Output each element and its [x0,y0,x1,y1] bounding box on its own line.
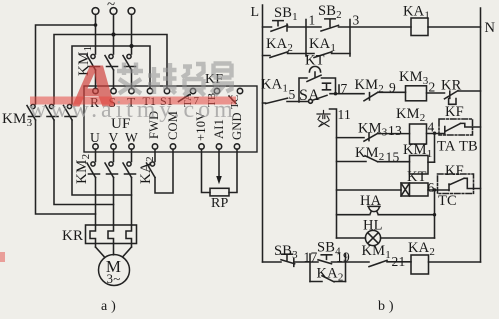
terminal FWD [147,111,161,150]
thermal relay KR box [62,225,137,244]
contact KM1 row8 [362,243,391,267]
svg-text:1: 1 [309,13,316,28]
node 9 [389,80,396,95]
svg-text:L: L [251,5,260,20]
relay KF label (TC) [445,163,464,179]
wire phase B vertical [113,15,115,55]
node 17 [304,250,318,282]
contactor coil KM2 [396,106,427,144]
svg-text:KR: KR [441,78,462,94]
overload contact KR [441,78,481,105]
svg-text:17: 17 [304,250,318,265]
contact KM3 NC row3 [337,121,410,142]
wire U down [95,149,97,161]
wire +10V to RP [202,149,211,192]
svg-text:V: V [109,130,119,145]
contact blade near TA [179,95,190,102]
svg-text:TA: TA [437,139,456,155]
wire row8 segments [263,261,481,263]
contact KM2 NC row2 [355,77,406,101]
inverter UF name [111,116,131,132]
watermark red A logo [72,66,115,107]
svg-text:KT: KT [407,169,427,185]
riser node6 down to HL row [434,190,436,238]
svg-text:21: 21 [392,254,406,269]
node 5 [289,87,296,102]
watermark url text [29,97,237,123]
svg-text:TC: TC [438,193,457,209]
buzzer HA [360,193,382,215]
motor M 3~ [99,255,130,287]
node row6 junction [433,213,436,216]
relay KF label (TA TB) [445,104,464,120]
relay coil KA1 [403,4,430,36]
wire KM2 coil to node4 [427,133,445,135]
wire GND to RP [229,149,237,192]
relay coil KA2 [408,240,435,274]
wire phase A tap to KM3 pole1 [36,25,96,104]
svg-text:19: 19 [336,250,350,265]
pin 7 label [194,95,200,107]
svg-text:U: U [90,130,100,145]
svg-text:RP: RP [211,196,229,211]
wire KR to motor left [96,247,105,257]
svg-text:SB2: SB2 [318,3,342,21]
caption b) [378,299,394,314]
contact KA2 parallel with SB1 [263,36,307,58]
svg-text:b ): b ) [378,299,394,314]
svg-text:3~: 3~ [107,271,121,286]
wire KM1 pole3 to T [131,70,133,88]
wire KM1 coil to riser [428,161,435,163]
svg-text:HA: HA [360,193,382,209]
contact blade near TC [229,96,236,104]
wire V down [113,149,115,161]
wire phase C tap to KM3 pole3 and to T1 [72,46,150,104]
svg-text:KM3: KM3 [399,69,429,87]
svg-text:4: 4 [428,120,435,135]
wire AI1 wiper arrow [216,149,222,184]
relay KF label on inverter [205,72,223,87]
terminal R [90,88,99,110]
terminal T [127,88,136,110]
contactor KM3 label [2,111,33,129]
svg-text:KM3: KM3 [2,111,33,129]
svg-text:SA: SA [299,87,320,104]
wire row6 [337,214,435,216]
node 13 [388,123,402,138]
terminal TC [229,88,243,109]
svg-text:KA2: KA2 [408,240,435,258]
svg-text:13: 13 [388,123,402,138]
svg-text:SB1: SB1 [274,5,298,23]
svg-text:2: 2 [429,80,436,95]
position mark gong (line-power) [323,83,331,90]
svg-text:KM2: KM2 [355,145,384,163]
svg-text:7: 7 [341,81,348,96]
selector switch SA [299,87,327,104]
svg-text:KM1: KM1 [403,142,432,160]
KF contact box TC [438,174,481,209]
svg-text:11: 11 [338,107,351,122]
wire KM3 pole1 down and right to motor wire U [36,120,96,214]
timed contact KT bridge [299,53,336,103]
supply terminal 1 [92,8,99,15]
lamp HL [363,218,383,246]
svg-text:N: N [485,20,496,36]
wire row7 [337,237,435,239]
node 19 [336,250,350,282]
terminal GND [230,112,244,149]
watermark red strip [30,97,236,105]
wire node5 to SA [287,101,308,103]
svg-text:HL: HL [363,218,383,234]
svg-text:KF: KF [445,163,464,179]
contactor KM1 label [76,46,94,76]
terminal T1 [143,88,157,108]
node 4 riser to KM1 coil [428,120,437,163]
contactor coil KM3 [399,69,429,101]
node 15 [386,150,400,165]
node 21 [392,254,406,269]
contactor KM2 pole 1 [87,162,100,178]
wire KM3 pole2 down and right to motor wire V [54,120,114,205]
KF contact box TA TB [437,119,481,155]
node 11 column [330,107,351,238]
pushbutton SB2 [318,3,342,31]
svg-text:W: W [125,130,138,145]
svg-text:~: ~ [107,0,115,13]
svg-text:KM3: KM3 [358,121,388,139]
wire KM3 pole3 down and right to motor wire W [72,120,132,195]
contact KM2 NO row4 [337,145,410,163]
wire KM2 pole3 to KR [131,178,133,226]
contactor KM3 pole 2 [46,104,59,120]
contactor KM2 pole 3 [123,162,136,178]
contact KA2 parallel with SB4 [310,266,346,284]
AC supply tilde [107,0,115,13]
wire KM2 pole2 to KR [113,178,115,226]
wire phase A vertical [95,15,97,55]
wire KR to motor right [123,247,132,257]
node phase C tap [129,44,133,48]
wire phase B tap to KM3 pole2 and to S1 [54,35,167,105]
contactor KM2 label [74,154,92,184]
wire W down [131,149,133,161]
svg-text:TB: TB [459,139,478,155]
rail L [251,5,263,262]
svg-text:KM2: KM2 [355,77,384,95]
potentiometer RP [210,188,229,211]
wire KR to motor middle [113,244,115,255]
inverter UF box [84,86,257,152]
terminal AI1 [212,119,226,149]
wire KM1 pole2 to S [113,70,115,88]
supply terminal 3 [128,8,135,15]
pushbutton SB4 [317,240,341,264]
wire KM2 pole1 to KR [95,178,97,226]
svg-text:6: 6 [428,180,435,195]
terminal S [109,88,117,110]
contact KA1 parallel with SB2 [306,36,350,58]
contactor KM3 pole 3 [64,104,77,120]
terminal S1 [160,88,173,108]
terminal TA [182,88,196,107]
svg-text:KA2: KA2 [138,156,156,184]
terminal TB [206,88,220,107]
caption a) [101,299,116,314]
relay KA2 label [138,156,156,184]
node 6 [428,180,450,195]
wire row5 [337,189,402,191]
wire KM1 pole1 to R [95,70,97,88]
contactor KM3 pole 1 [27,104,40,120]
pushbutton SB1 [271,5,298,31]
svg-text:www.aitmy.com: www.aitmy.com [29,97,237,123]
svg-text:KF: KF [445,104,464,120]
watermark chinese characters [117,63,234,96]
contactor coil KM1 [403,142,432,174]
svg-text:KM1: KM1 [362,243,391,261]
svg-text:KA1: KA1 [309,36,336,54]
svg-text:5: 5 [289,87,296,102]
svg-text:9: 9 [389,80,396,95]
wire SA to node7 to KM2 [330,93,364,95]
svg-text:15: 15 [386,150,400,165]
pushbutton SB3 [274,243,298,266]
svg-text:KA2: KA2 [266,36,293,54]
KR heater element 2 [108,225,114,244]
svg-text:KM2: KM2 [74,154,92,184]
node phase A tap [94,23,98,27]
svg-text:KA2: KA2 [317,266,344,284]
node phase B tap [111,32,115,36]
node 2 [427,80,445,95]
svg-text:KA1: KA1 [403,4,430,22]
svg-text:KM2: KM2 [396,106,425,124]
svg-text:3: 3 [353,13,360,28]
contactor KM1 pole 2 [105,54,118,70]
watermark left edge mark [0,252,5,262]
wire row1 segments [263,26,481,28]
svg-text:a ): a ) [101,299,116,314]
KR heater element 3 [126,225,132,247]
svg-text:SB3: SB3 [274,243,298,261]
terminal +10V [194,112,208,150]
wire phase C vertical [131,15,133,55]
contactor KM1 pole 1 [87,54,100,70]
svg-text:KT: KT [305,53,325,69]
svg-text:KA1: KA1 [261,77,288,95]
svg-text:KR: KR [62,228,83,244]
rail N [481,8,496,262]
terminal COM [166,111,180,149]
node 1 [306,13,315,57]
node 3 [350,13,360,57]
contactor KM1 pole 3 [123,54,136,70]
contactor KM2 pole 2 [105,162,118,178]
terminal W [125,130,138,149]
contact KA1 row2 [261,77,288,104]
terminal V [109,130,119,149]
KR heater element 1 [90,225,96,247]
contact KA2 FWD-COM [147,149,174,193]
terminal U [90,130,100,149]
position mark bian (inverter) [317,111,330,127]
node 7 [334,81,348,96]
time relay coil KT [401,169,428,196]
supply terminal 2 [110,8,117,15]
